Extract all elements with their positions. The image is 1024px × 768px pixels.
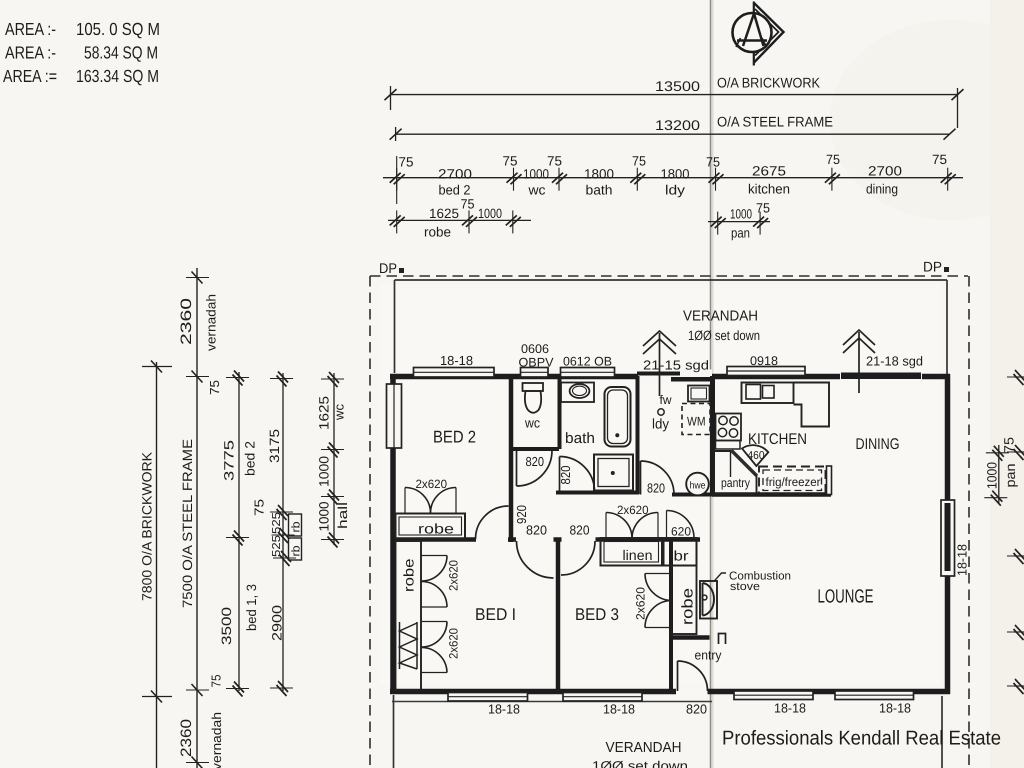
bed3 door 820	[561, 541, 595, 575]
kitchen sink bench	[742, 383, 794, 404]
bed3 robe box	[672, 566, 697, 635]
linen doors 2x620	[606, 513, 658, 539]
svg-text:2700: 2700	[868, 164, 902, 179]
sliding door 21-15 opening	[638, 370, 712, 384]
left dim 7500 O/A STEEL FRAME	[196, 268, 198, 768]
svg-text:VERANDAH: VERANDAH	[606, 740, 682, 756]
svg-text:1000: 1000	[730, 207, 752, 222]
svg-text:18-18: 18-18	[440, 353, 473, 368]
svg-text:vernadah: vernadah	[204, 294, 219, 351]
svg-text:1000: 1000	[478, 206, 502, 221]
svg-text:frig/freezer: frig/freezer	[766, 475, 821, 489]
verandah slab edge bottom	[392, 701, 712, 703]
svg-text:58.34 SQ M: 58.34 SQ M	[84, 43, 158, 63]
svg-text:7800 O/A BRICKWORK: 7800 O/A BRICKWORK	[140, 452, 155, 601]
window 18-18 bottom (bed3)	[563, 693, 642, 702]
svg-text:bed 1, 3: bed 1, 3	[244, 584, 259, 631]
bed1 robe doors 2x620 pair2	[422, 622, 448, 673]
svg-text:hall: hall	[335, 502, 350, 529]
kitchen bottom wall	[712, 492, 831, 497]
svg-text:820: 820	[686, 702, 707, 717]
right edge tick stubs	[1014, 377, 1024, 686]
window right wall 18-18	[941, 500, 955, 576]
verandah solid edge	[394, 280, 948, 768]
verandah dashed boundary	[370, 276, 969, 768]
svg-text:KITCHEN: KITCHEN	[748, 431, 807, 448]
hall bottom wall (bed1/bed3 top)	[391, 537, 700, 542]
svg-text:VERANDAH: VERANDAH	[683, 309, 758, 325]
left dim 3175 / 525 / 2900	[282, 373, 284, 691]
right dim 1000 pan 75	[998, 445, 1000, 503]
wall ldy/kitchen	[710, 376, 715, 496]
svg-text:1000: 1000	[523, 167, 549, 182]
svg-text:820: 820	[570, 523, 590, 538]
window 18-18 bottom (lounge left)	[734, 691, 813, 700]
svg-text:820: 820	[558, 466, 573, 485]
dim 13500 O/A BRICKWORK	[391, 86, 958, 128]
svg-text:105. 0 SQ M: 105. 0 SQ M	[76, 19, 160, 39]
svg-text:13500: 13500	[655, 78, 700, 94]
svg-text:1800: 1800	[584, 167, 614, 182]
bed2 door 820	[476, 506, 509, 539]
svg-text:2x620: 2x620	[416, 477, 448, 491]
svg-text:rb: rb	[291, 546, 303, 557]
svg-text:1800: 1800	[661, 167, 690, 182]
svg-text:18-18: 18-18	[603, 702, 635, 717]
svg-text:2x620: 2x620	[447, 560, 461, 591]
svg-text:BED 2: BED 2	[433, 428, 476, 447]
svg-text:75: 75	[547, 154, 562, 169]
svg-text:kitchen: kitchen	[748, 182, 790, 197]
svg-text:Professionals Kendall Real Est: Professionals Kendall Real Estate	[722, 728, 1001, 750]
svg-text:pan: pan	[731, 226, 750, 241]
svg-text:O/A STEEL FRAME: O/A STEEL FRAME	[717, 114, 833, 130]
robe dimension string	[388, 219, 531, 221]
svg-text:robe: robe	[418, 521, 454, 537]
svg-text:2x620: 2x620	[617, 503, 649, 517]
svg-text:0918: 0918	[750, 354, 778, 368]
svg-text:wc: wc	[527, 183, 545, 198]
bed2 robe box	[396, 514, 466, 539]
svg-text:21-18 sgd: 21-18 sgd	[866, 354, 923, 369]
wall bath/ldy	[636, 376, 640, 494]
svg-text:1625: 1625	[429, 206, 459, 221]
svg-text:2x620: 2x620	[447, 628, 461, 659]
svg-text:3775: 3775	[222, 440, 237, 481]
bed2 robe doors 2x620	[405, 488, 456, 514]
svg-text:75: 75	[706, 155, 720, 170]
svg-text:pan: pan	[1003, 464, 1018, 488]
window 0612 OB top (bath)	[561, 368, 615, 378]
svg-text:LOUNGE: LOUNGE	[818, 587, 874, 608]
dim 13200 O/A STEEL FRAME	[396, 127, 950, 141]
svg-text:525: 525	[271, 512, 283, 534]
svg-text:75: 75	[252, 499, 267, 516]
svg-text:75: 75	[756, 201, 770, 216]
sliding door 21-18 opening	[840, 369, 922, 384]
wall bed3/entry	[669, 541, 673, 690]
svg-text:DP: DP	[379, 260, 397, 276]
svg-text:163.34 SQ M: 163.34 SQ M	[76, 66, 159, 86]
svg-text:bed 2: bed 2	[439, 183, 471, 198]
svg-text:75: 75	[207, 380, 222, 395]
svg-text:460: 460	[748, 450, 765, 462]
svg-text:entry: entry	[695, 648, 722, 663]
fold line	[710, 0, 712, 768]
window 18-18 bottom (bed1)	[448, 693, 528, 702]
svg-text:DINING: DINING	[856, 436, 900, 453]
rb boxes	[289, 514, 302, 536]
entry door gap in bottom wall	[676, 687, 708, 697]
svg-text:ldy: ldy	[652, 416, 669, 432]
window 18-18 top (bed2)	[414, 368, 495, 378]
pantry	[714, 451, 758, 495]
area schedule text	[3, 19, 160, 86]
arrow 21-15 sgd	[643, 331, 676, 396]
svg-text:18-18: 18-18	[955, 544, 970, 576]
svg-text:21-15 sgd: 21-15 sgd	[643, 358, 709, 373]
svg-text:75: 75	[399, 155, 414, 170]
svg-text:2900: 2900	[270, 605, 285, 641]
svg-text:rb: rb	[291, 522, 303, 533]
left dim 1625 wc 1000 1000 hall	[333, 373, 335, 545]
svg-text:1000: 1000	[317, 502, 332, 532]
svg-text:620: 620	[671, 525, 691, 539]
entry door 820	[678, 661, 708, 691]
svg-text:18-18: 18-18	[774, 701, 806, 716]
svg-text:2700: 2700	[438, 167, 472, 182]
svg-text:BED I: BED I	[475, 605, 516, 624]
svg-text:ldy: ldy	[665, 183, 685, 198]
svg-text:18-18: 18-18	[488, 702, 520, 717]
toilet wc	[523, 383, 544, 413]
kitchen/dining stub wall	[827, 466, 832, 495]
svg-text:wc: wc	[524, 416, 540, 431]
bed1 robe box	[396, 541, 422, 690]
laundry tub	[688, 386, 710, 402]
left dim 7800 O/A BRICKWORK	[156, 362, 158, 768]
svg-text:820: 820	[647, 481, 665, 496]
svg-text:75: 75	[826, 152, 840, 167]
svg-text:bath: bath	[586, 183, 613, 198]
window 0606 OBPV top (wc)	[521, 368, 549, 378]
svg-text:525: 525	[271, 535, 283, 557]
svg-text:1ØØ set down: 1ØØ set down	[592, 759, 688, 768]
svg-text:1ØØ set down: 1ØØ set down	[688, 328, 760, 343]
svg-text:2675: 2675	[752, 164, 786, 179]
svg-text:vernadah: vernadah	[209, 712, 224, 768]
svg-text:2360: 2360	[178, 719, 195, 757]
bathtub	[605, 387, 631, 447]
svg-text:75: 75	[503, 154, 518, 169]
wall bed1/bed3	[556, 541, 561, 690]
svg-text:WM: WM	[687, 415, 706, 429]
svg-text:bath: bath	[565, 430, 595, 447]
svg-text:wc: wc	[332, 403, 347, 421]
entry top wall	[670, 635, 710, 640]
svg-text:hwe: hwe	[690, 481, 706, 492]
left dim bed2 3775	[238, 372, 240, 691]
arrow 21-18 sgd	[843, 330, 875, 393]
svg-text:br: br	[674, 548, 689, 564]
svg-text:O/A BRICKWORK: O/A BRICKWORK	[717, 75, 821, 91]
svg-text:robe: robe	[424, 225, 451, 240]
460 corner wedge	[742, 445, 768, 466]
linen closet	[601, 538, 663, 566]
svg-text:0606: 0606	[521, 342, 549, 356]
top room dimension string	[383, 177, 963, 179]
svg-text:robe: robe	[680, 588, 697, 625]
bath door 820	[560, 457, 595, 492]
svg-text:1000: 1000	[317, 456, 332, 487]
window left wall (bed2 robe wall)	[387, 384, 402, 448]
entry step bracket	[719, 634, 726, 645]
ldy bottom wall	[672, 493, 714, 497]
svg-text:robe: robe	[401, 558, 417, 592]
svg-text:3175: 3175	[267, 429, 282, 463]
window 0918 top (kitchen)	[727, 367, 805, 376]
svg-text:OBPV: OBPV	[519, 356, 555, 370]
wc bottom wall	[511, 447, 559, 451]
cooktop	[716, 414, 742, 450]
svg-text:920: 920	[514, 505, 529, 524]
svg-text:fw: fw	[660, 393, 673, 407]
svg-text:18-18: 18-18	[879, 701, 911, 716]
bed1 robe rail zigzag	[400, 622, 418, 669]
svg-text:7500 O/A STEEL FRAME: 7500 O/A STEEL FRAME	[180, 439, 195, 608]
exterior walls	[390, 374, 950, 694]
svg-text:1000: 1000	[985, 462, 1000, 489]
bed3 robe doors 2x620	[645, 574, 672, 628]
svg-text:75: 75	[461, 197, 475, 212]
svg-text:75: 75	[932, 152, 947, 167]
svg-text:AREA :-: AREA :-	[5, 43, 56, 63]
svg-text:bed 2: bed 2	[243, 441, 258, 476]
wall wc/bath	[558, 376, 562, 449]
hwe unit	[686, 473, 709, 496]
svg-text:2x620: 2x620	[634, 587, 648, 620]
svg-text:0612 OB: 0612 OB	[563, 355, 612, 369]
bed1 robe doors 2x620 pair1	[422, 556, 448, 608]
svg-text:pantry: pantry	[721, 476, 751, 490]
svg-text:AREA :=: AREA :=	[3, 66, 57, 86]
bed1 door 820	[517, 541, 554, 578]
washing machine WM dashed	[682, 404, 710, 435]
frig/freezer dashed	[759, 467, 826, 495]
svg-text:AREA :-: AREA :-	[5, 19, 56, 39]
interior wall bed2/wc-hall	[509, 376, 514, 542]
svg-text:1625: 1625	[317, 396, 332, 430]
shower base	[594, 455, 633, 491]
svg-text:linen: linen	[623, 547, 653, 563]
north symbol	[733, 2, 784, 66]
ldy door 820	[641, 461, 675, 495]
window 18-18 bottom (lounge right)	[835, 691, 914, 700]
svg-text:BED 3: BED 3	[575, 605, 619, 624]
svg-text:dining: dining	[866, 182, 898, 197]
basin bath	[561, 383, 594, 403]
svg-text:75: 75	[632, 154, 646, 169]
svg-text:2360: 2360	[178, 298, 195, 345]
combustion stove fixture	[700, 581, 717, 619]
br door 620	[667, 511, 695, 539]
pan dimension string	[708, 221, 770, 223]
svg-text:3500: 3500	[219, 607, 234, 645]
kitchen bench return	[794, 383, 830, 427]
svg-text:DP: DP	[923, 259, 942, 275]
wc door 820	[517, 451, 553, 487]
svg-text:stove: stove	[730, 581, 760, 593]
svg-text:13200: 13200	[655, 117, 700, 133]
svg-text:820: 820	[526, 454, 545, 469]
br closet	[664, 538, 697, 566]
bath bottom wall	[556, 491, 639, 495]
svg-text:820: 820	[526, 523, 547, 538]
svg-text:75: 75	[209, 675, 224, 688]
